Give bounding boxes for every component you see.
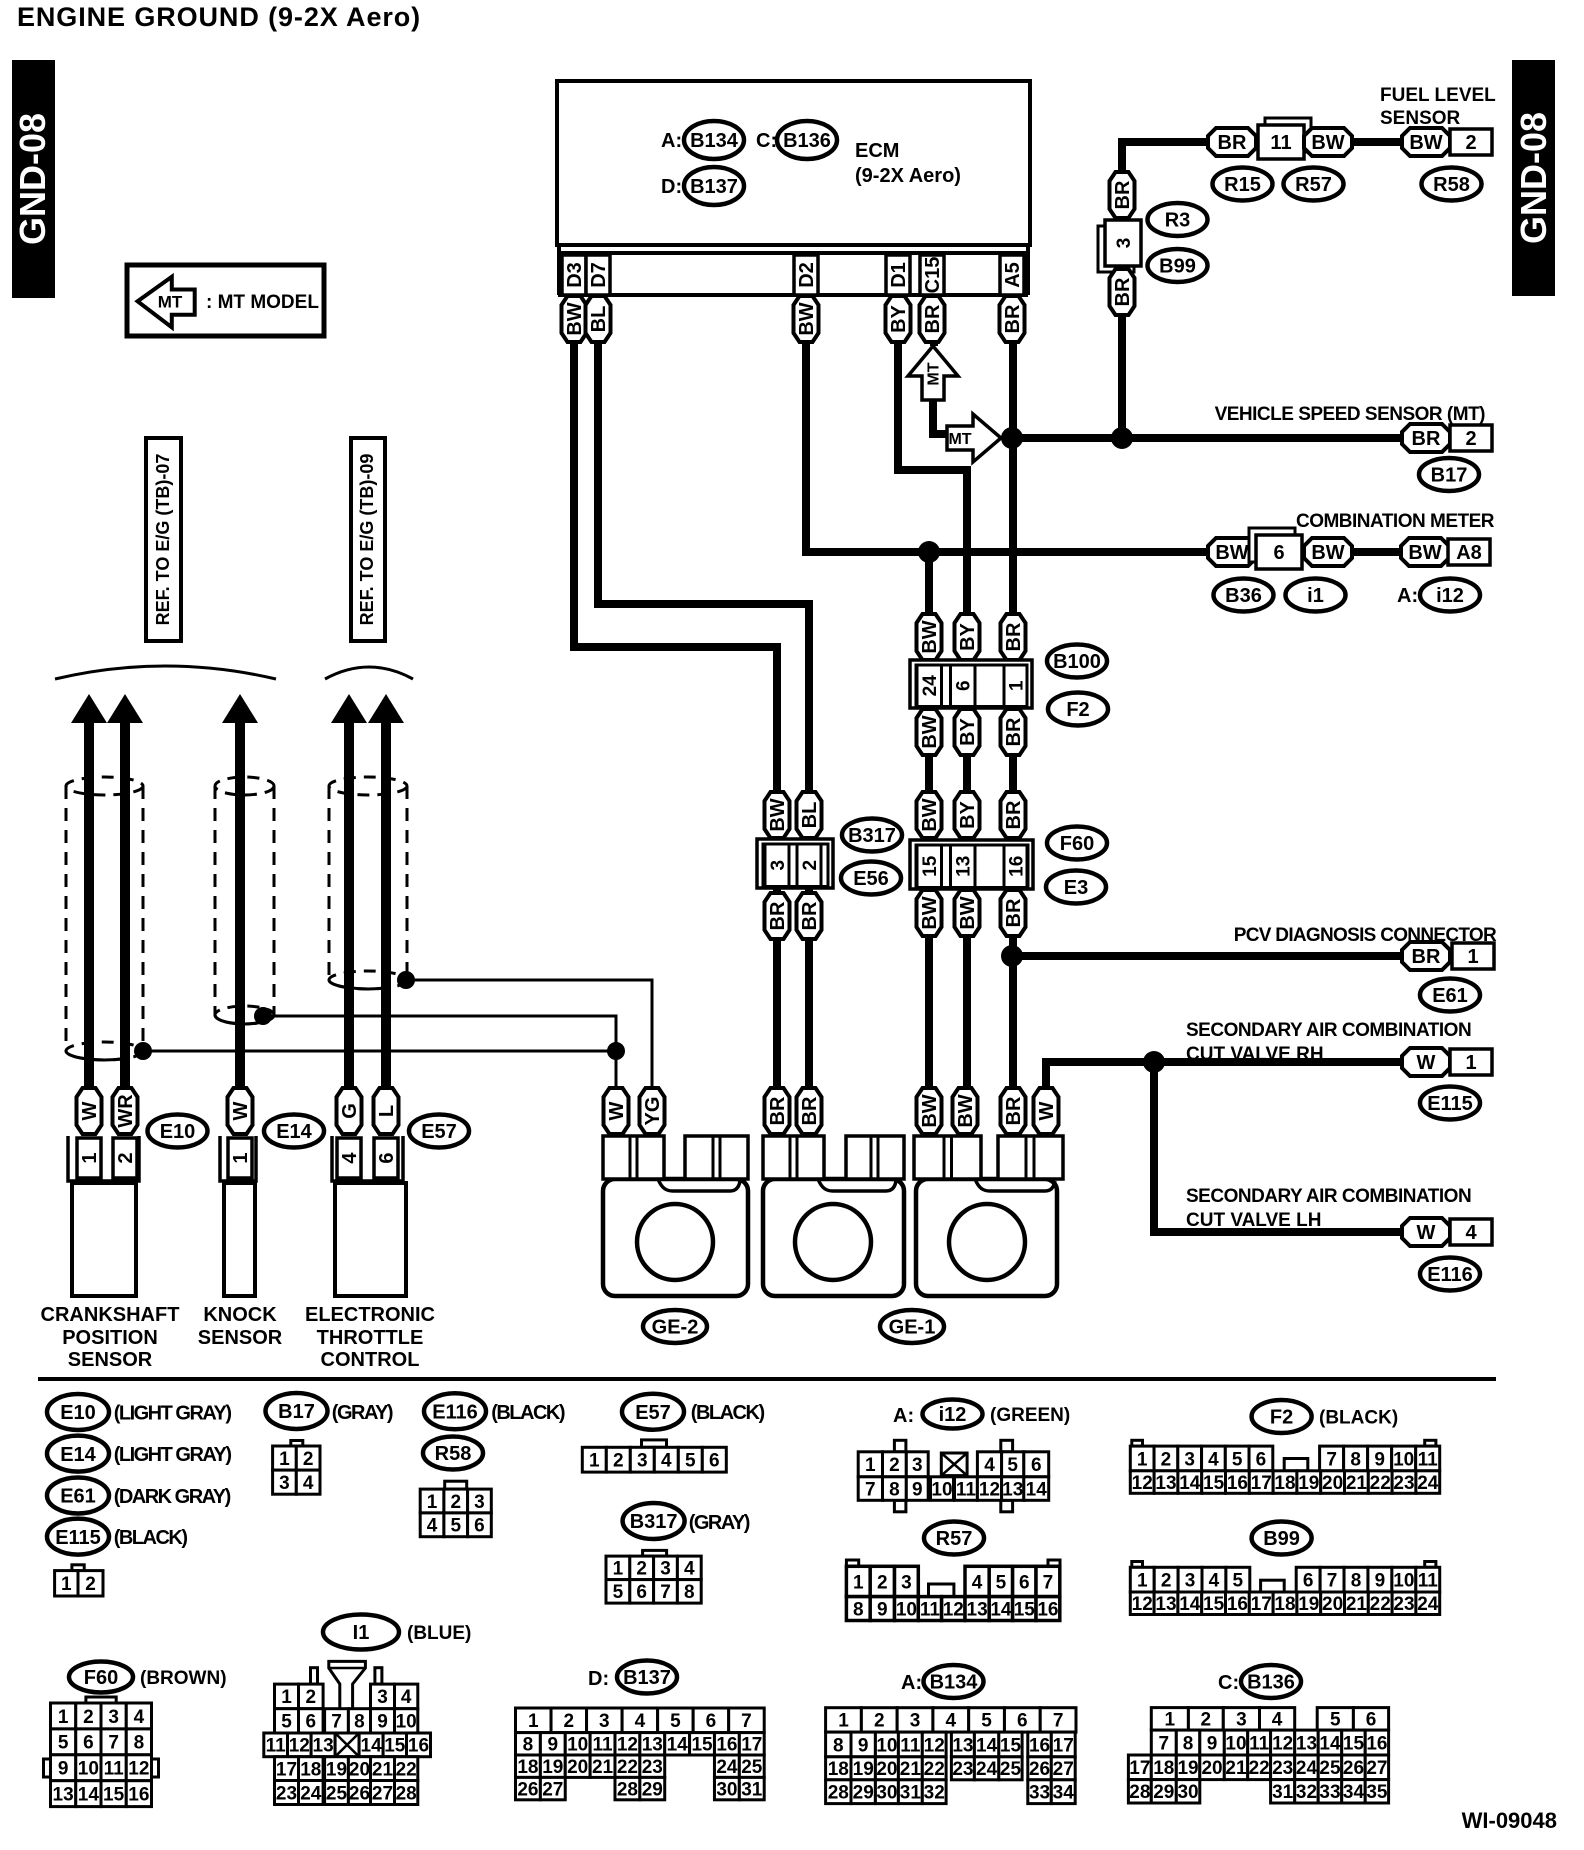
svg-text:15: 15 (920, 855, 941, 877)
svg-text:14: 14 (976, 1735, 998, 1756)
svg-text:5: 5 (670, 1711, 681, 1732)
svg-text:9: 9 (548, 1735, 559, 1756)
E57 pin 4 (337, 1138, 361, 1178)
svg-text:BW: BW (919, 896, 941, 929)
svg-text:GND-08: GND-08 (1513, 112, 1554, 244)
pin box 11 of R15/R57 (1258, 118, 1311, 159)
label E10 color (114, 1403, 232, 1425)
ECM connector oval D B137 (684, 167, 744, 205)
svg-text:9: 9 (1374, 1449, 1385, 1470)
svg-text:9: 9 (858, 1735, 869, 1756)
svg-text:11: 11 (592, 1735, 613, 1756)
svg-text:BW: BW (564, 302, 586, 335)
connector F60/E3 box (910, 840, 1033, 889)
knock sensor body (224, 1183, 255, 1296)
svg-text:18: 18 (1153, 1758, 1174, 1779)
svg-text:19: 19 (326, 1759, 347, 1780)
svg-text:BY: BY (888, 304, 910, 332)
svg-text:BR: BR (1112, 180, 1134, 209)
svg-text:19: 19 (1298, 1594, 1319, 1615)
svg-text:25: 25 (1000, 1759, 1022, 1780)
svg-text:2: 2 (613, 1451, 624, 1472)
svg-text:E115: E115 (1427, 1093, 1473, 1115)
svg-text:12: 12 (924, 1735, 945, 1756)
svg-text:2: 2 (1201, 1710, 1212, 1731)
connector view B17 grid (273, 1441, 320, 1495)
connector view I12 grid (858, 1440, 1048, 1512)
svg-text:BW: BW (1409, 132, 1442, 154)
svg-text:BY: BY (957, 622, 979, 650)
svg-text:23: 23 (276, 1783, 297, 1804)
svg-text:6: 6 (636, 1582, 647, 1603)
svg-text:23: 23 (1393, 1473, 1414, 1494)
svg-text:14: 14 (667, 1735, 689, 1756)
svg-text:VEHICLE SPEED SENSOR (MT): VEHICLE SPEED SENSOR (MT) (1215, 404, 1486, 425)
svg-text:R3: R3 (1165, 210, 1191, 232)
svg-text:17: 17 (1251, 1594, 1272, 1615)
svg-text:2: 2 (306, 1687, 317, 1708)
svg-text:BR: BR (1003, 898, 1025, 927)
crankshaft position sensor body (72, 1183, 136, 1296)
svg-text:3: 3 (901, 1572, 912, 1593)
svg-text:BW: BW (919, 620, 941, 653)
svg-text:C15: C15 (922, 257, 944, 294)
wire tag BW at GE-1 from F60 pin13 (953, 1088, 978, 1134)
svg-text:BW: BW (1408, 542, 1441, 564)
oval E10 bottom (47, 1394, 109, 1430)
oval B36 (1214, 579, 1274, 612)
svg-text:7: 7 (1327, 1570, 1338, 1591)
wire tag BR above F60 pin16 (1001, 792, 1026, 838)
svg-text:5: 5 (996, 1572, 1007, 1593)
wire tag BW at ECM D2 (794, 296, 819, 342)
connector view E57 grid (582, 1440, 726, 1472)
pin box 4 at cut valve LH (1450, 1219, 1492, 1245)
oval E56 inline (841, 862, 901, 895)
svg-text:E61: E61 (60, 1486, 96, 1508)
oval F60 inline (1047, 827, 1107, 860)
svg-text:32: 32 (1296, 1782, 1317, 1803)
E57 pin 6 (374, 1138, 398, 1178)
svg-text:4: 4 (1272, 1710, 1283, 1731)
svg-text:31: 31 (900, 1783, 922, 1804)
svg-text:6: 6 (1273, 542, 1284, 564)
svg-text:11: 11 (956, 1479, 977, 1500)
svg-text:17: 17 (1053, 1735, 1074, 1756)
svg-text:(GREEN): (GREEN) (990, 1405, 1070, 1426)
wire tag BR at GE-1 from B317 pin3 (765, 1088, 790, 1134)
svg-text:10: 10 (931, 1479, 952, 1500)
svg-text:i12: i12 (939, 1404, 967, 1426)
svg-text:19: 19 (1177, 1758, 1198, 1779)
svg-text:4: 4 (946, 1711, 957, 1732)
svg-text:1: 1 (61, 1574, 72, 1595)
junction dot combination meter / B100 column (918, 541, 940, 563)
oval E57 label (409, 1115, 469, 1148)
svg-text:22: 22 (924, 1759, 945, 1780)
svg-text:D2: D2 (796, 262, 818, 288)
svg-text:12: 12 (289, 1736, 310, 1757)
svg-text:10: 10 (396, 1712, 417, 1733)
ECM pin D7 (586, 255, 610, 295)
svg-text:6: 6 (1366, 1710, 1377, 1731)
svg-text:1: 1 (1467, 946, 1478, 968)
svg-text:20: 20 (1322, 1473, 1343, 1494)
svg-text:1: 1 (838, 1711, 849, 1732)
wire tag BW at GE-1 from F60 pin15 (917, 1088, 942, 1134)
wire tag BR at GE-1 from PCV line (1001, 1088, 1026, 1134)
svg-text:6: 6 (1256, 1449, 1267, 1470)
label B317 color (689, 1512, 750, 1534)
svg-text:BL: BL (588, 306, 610, 333)
svg-text:5: 5 (1007, 1455, 1018, 1476)
MT up arrow on C15 wire (908, 346, 958, 400)
svg-text:D3: D3 (564, 262, 586, 288)
junction dot crankshaft shield drain (134, 1042, 152, 1060)
svg-text:24: 24 (300, 1783, 322, 1804)
svg-text:3: 3 (108, 1707, 119, 1728)
svg-text:(9-2X Aero): (9-2X Aero) (855, 165, 961, 187)
wire tag G at E57 pin4 (337, 1088, 362, 1134)
svg-text:4: 4 (1208, 1449, 1219, 1470)
svg-text:9: 9 (377, 1712, 388, 1733)
wire tag BW inline combination meter right (1304, 538, 1352, 566)
oval GE-2 label (643, 1310, 707, 1343)
svg-text:31: 31 (1272, 1782, 1294, 1803)
svg-text:1: 1 (230, 1152, 252, 1163)
svg-text:1: 1 (1006, 680, 1027, 691)
svg-text:15: 15 (1203, 1473, 1225, 1494)
crankshaft sensor wire W (71, 694, 107, 1090)
oval E57 bottom (622, 1394, 684, 1430)
svg-text:C:: C: (756, 130, 777, 152)
section divider line (38, 1377, 1496, 1381)
svg-text:REF. TO E/G (TB)-07: REF. TO E/G (TB)-07 (153, 454, 173, 626)
svg-text:34: 34 (1053, 1783, 1075, 1804)
svg-text:CUT VALVE LH: CUT VALVE LH (1186, 1210, 1321, 1231)
svg-text:: MT MODEL: : MT MODEL (206, 292, 319, 313)
ECM connector oval C B136 (777, 121, 837, 159)
svg-text:5: 5 (685, 1451, 696, 1472)
svg-text:12: 12 (1132, 1473, 1153, 1494)
svg-text:E14: E14 (276, 1121, 312, 1143)
oval R58 bottom (423, 1437, 483, 1470)
svg-text:1: 1 (279, 1449, 290, 1470)
svg-text:BR: BR (922, 304, 944, 333)
ground GE-1 right body (914, 1136, 1063, 1296)
MT right arrow to vehicle speed junction (947, 414, 1001, 462)
svg-text:2: 2 (1465, 428, 1476, 450)
svg-text:R58: R58 (435, 1443, 472, 1465)
svg-text:13: 13 (967, 1599, 988, 1620)
svg-text:20: 20 (876, 1759, 897, 1780)
MT model legend box (127, 265, 324, 336)
drawing number WI-09048 (1462, 1808, 1557, 1833)
svg-text:2: 2 (1161, 1449, 1172, 1470)
svg-text:4: 4 (134, 1707, 145, 1728)
svg-text:B99: B99 (1263, 1528, 1300, 1550)
oval E61 bottom (47, 1478, 109, 1514)
svg-text:2: 2 (1161, 1570, 1172, 1591)
junction dot drains join W wire (607, 1042, 625, 1060)
svg-text:15: 15 (1014, 1599, 1036, 1620)
wire tag BW inline combination meter (1208, 538, 1256, 566)
oval E116 bottom (424, 1393, 486, 1429)
label A: for B134 (901, 1672, 922, 1694)
svg-text:17: 17 (741, 1735, 762, 1756)
svg-text:7: 7 (1053, 1711, 1064, 1732)
svg-text:22: 22 (1370, 1594, 1391, 1615)
label ELECTRONIC THROTTLE CONTROL (305, 1304, 435, 1371)
svg-text:22: 22 (617, 1757, 638, 1778)
connector view B137 grid (516, 1708, 765, 1800)
oval F2 bottom (1252, 1400, 1312, 1433)
svg-text:B17: B17 (1431, 465, 1468, 487)
svg-text:D:: D: (588, 1668, 609, 1690)
wire D7 BL from ECM to B317 pin2 column (598, 296, 809, 1178)
svg-text:32: 32 (924, 1783, 945, 1804)
svg-text:BW: BW (919, 715, 941, 748)
wire D1 BY from ECM to B100 pin6 column (898, 296, 967, 1178)
wire tag BR at vehicle speed sensor (1402, 424, 1450, 452)
label KNOCK SENSOR (198, 1304, 283, 1349)
svg-text:8: 8 (1183, 1733, 1194, 1754)
svg-text:R57: R57 (1295, 174, 1332, 196)
svg-text:15: 15 (691, 1735, 713, 1756)
ECM connector oval A B134 (684, 121, 744, 159)
svg-text:24: 24 (1417, 1594, 1439, 1615)
wire tag BY above B100 pin6 (955, 614, 980, 660)
svg-text:BW: BW (957, 896, 979, 929)
dashed shield around crankshaft sensor wires (66, 777, 143, 1060)
svg-text:E61: E61 (1432, 985, 1468, 1007)
arc over crankshaft wires (55, 666, 276, 679)
svg-text:27: 27 (1053, 1759, 1074, 1780)
label C: for B136 (1218, 1672, 1239, 1694)
svg-text:13: 13 (313, 1736, 334, 1757)
wire tag W at cut valve LH (1402, 1218, 1450, 1246)
ground GE-1 middle body (763, 1136, 904, 1296)
svg-text:2: 2 (889, 1455, 900, 1476)
svg-text:1: 1 (1137, 1449, 1148, 1470)
svg-text:5: 5 (1330, 1710, 1341, 1731)
svg-text:BR: BR (1412, 428, 1441, 450)
pin box A8 at combination meter (1448, 539, 1490, 565)
E14 connector tray (220, 1136, 256, 1181)
svg-text:1: 1 (58, 1707, 69, 1728)
svg-text:7: 7 (1159, 1733, 1170, 1754)
svg-text:BW: BW (1311, 542, 1344, 564)
label I1 color (407, 1623, 471, 1644)
svg-text:25: 25 (1319, 1758, 1341, 1779)
svg-text:BW: BW (919, 1094, 941, 1127)
svg-text:3: 3 (1185, 1570, 1196, 1591)
oval B317 bottom (623, 1503, 685, 1539)
svg-text:REF. TO E/G (TB)-09: REF. TO E/G (TB)-09 (357, 454, 377, 626)
oval I1 bottom (323, 1615, 399, 1650)
svg-text:11: 11 (920, 1599, 941, 1620)
svg-text:WR: WR (115, 1094, 137, 1128)
svg-text:6: 6 (376, 1152, 398, 1163)
svg-text:15: 15 (103, 1784, 125, 1805)
svg-text:GE-1: GE-1 (889, 1317, 936, 1339)
svg-text:5: 5 (450, 1516, 461, 1537)
svg-text:12: 12 (617, 1735, 638, 1756)
wire tag L at E57 pin6 (374, 1088, 399, 1134)
svg-text:(BROWN): (BROWN) (140, 1668, 227, 1689)
svg-text:A:: A: (893, 1405, 914, 1427)
svg-text:8: 8 (134, 1733, 145, 1754)
svg-text:B137: B137 (623, 1667, 671, 1689)
svg-text:W: W (606, 1101, 628, 1120)
svg-text:5: 5 (1232, 1449, 1243, 1470)
svg-text:D7: D7 (588, 262, 610, 288)
svg-text:21: 21 (1225, 1758, 1247, 1779)
svg-text:3: 3 (377, 1687, 388, 1708)
svg-text:15: 15 (1203, 1594, 1225, 1615)
svg-text:R58: R58 (1433, 174, 1470, 196)
svg-text:BR: BR (799, 1096, 821, 1125)
wire tag BR at ECM A5 (1000, 296, 1025, 342)
svg-text:9: 9 (1375, 1570, 1386, 1591)
svg-text:8: 8 (1351, 1570, 1362, 1591)
wire tag BW at ECM D3 (562, 296, 587, 342)
svg-text:11: 11 (266, 1736, 287, 1757)
svg-text:5: 5 (281, 1712, 292, 1733)
svg-text:16: 16 (128, 1784, 149, 1805)
wire tag WR at E10 pin2 (113, 1088, 138, 1134)
svg-text:12: 12 (1272, 1733, 1293, 1754)
junction dot MT arrow / vehicle speed on A5 wire (1001, 427, 1023, 449)
wire tag BR below B317 pin3 (765, 893, 790, 939)
svg-text:6: 6 (1019, 1572, 1030, 1593)
svg-text:4: 4 (401, 1687, 412, 1708)
svg-text:BR: BR (1003, 622, 1025, 651)
wire tag YG at GE-2 (640, 1088, 665, 1134)
label A: for i12 (1397, 585, 1418, 607)
wire tag BY below B100 pin6 (955, 709, 980, 755)
svg-text:26: 26 (517, 1779, 538, 1800)
E57 connector tray (332, 1136, 403, 1181)
svg-text:(LIGHT GRAY): (LIGHT GRAY) (114, 1444, 232, 1466)
svg-text:26: 26 (1029, 1759, 1050, 1780)
wire tag BW below F60 pin15 (917, 890, 942, 936)
svg-text:28: 28 (828, 1783, 849, 1804)
svg-text:WI-09048: WI-09048 (1462, 1808, 1557, 1833)
svg-text:W: W (79, 1101, 101, 1120)
svg-text:3: 3 (912, 1455, 923, 1476)
svg-text:6: 6 (1017, 1711, 1028, 1732)
svg-text:B36: B36 (1225, 585, 1262, 607)
svg-text:4: 4 (635, 1711, 646, 1732)
oval E14 label (264, 1115, 324, 1148)
svg-text:16: 16 (1029, 1735, 1050, 1756)
svg-text:10: 10 (567, 1735, 588, 1756)
svg-text:6: 6 (1031, 1455, 1042, 1476)
wire A5 BR from ECM down B100 pin1 column (1009, 296, 1017, 1178)
svg-text:14: 14 (361, 1736, 383, 1757)
label E57 color (691, 1402, 765, 1424)
svg-text:3: 3 (660, 1559, 671, 1580)
svg-text:34: 34 (1343, 1782, 1365, 1803)
svg-text:29: 29 (853, 1783, 874, 1804)
crankshaft sensor wire WR (107, 694, 143, 1090)
svg-text:28: 28 (617, 1779, 638, 1800)
connector view R58 grid (420, 1481, 491, 1537)
arc over ETC wires (325, 667, 413, 679)
svg-text:E56: E56 (853, 868, 889, 890)
svg-text:3: 3 (474, 1492, 485, 1513)
svg-text:23: 23 (642, 1757, 663, 1778)
thin wire crankshaft shield drain (143, 1050, 616, 1053)
title text ENGINE GROUND (9-2X Aero) (17, 2, 421, 32)
svg-text:18: 18 (300, 1759, 321, 1780)
svg-text:B134: B134 (690, 130, 739, 152)
svg-text:BR: BR (1003, 1096, 1025, 1125)
oval B17 at vehicle speed sensor (1419, 458, 1479, 491)
svg-text:16: 16 (716, 1735, 737, 1756)
label CRANKSHAFT POSITION SENSOR (41, 1304, 180, 1371)
svg-text:8: 8 (684, 1582, 695, 1603)
svg-text:21: 21 (900, 1759, 922, 1780)
svg-text:8: 8 (523, 1735, 534, 1756)
wire tag BR below B100 pin1 (1001, 709, 1026, 755)
oval GE-1 label (880, 1310, 944, 1343)
svg-text:3: 3 (599, 1711, 610, 1732)
svg-text:27: 27 (372, 1783, 393, 1804)
pin box 2 at vehicle speed sensor (1450, 425, 1492, 451)
svg-text:31: 31 (741, 1779, 763, 1800)
label FUEL LEVEL SENSOR (1380, 85, 1496, 129)
label COMBINATION METER (1296, 511, 1495, 532)
svg-text:2: 2 (303, 1449, 314, 1470)
ECM pin D3 (562, 255, 586, 295)
svg-text:17: 17 (1251, 1473, 1272, 1494)
svg-text:23: 23 (1393, 1594, 1414, 1615)
connector view F2 grid (1130, 1440, 1439, 1494)
svg-text:8: 8 (833, 1735, 844, 1756)
svg-text:POSITION: POSITION (62, 1327, 158, 1349)
svg-text:2: 2 (83, 1707, 94, 1728)
oval R57 inline (1284, 168, 1344, 201)
svg-text:E57: E57 (635, 1402, 671, 1424)
svg-text:18: 18 (1274, 1594, 1295, 1615)
svg-text:3: 3 (279, 1473, 290, 1494)
svg-text:1: 1 (427, 1492, 438, 1513)
svg-text:16: 16 (1227, 1473, 1248, 1494)
svg-text:1: 1 (865, 1455, 876, 1476)
oval E14 bottom (47, 1436, 109, 1472)
svg-text:27: 27 (1366, 1758, 1387, 1779)
svg-text:30: 30 (876, 1783, 897, 1804)
svg-text:15: 15 (1000, 1735, 1022, 1756)
svg-text:21: 21 (372, 1759, 394, 1780)
oval R3 (1148, 203, 1208, 236)
svg-text:2: 2 (877, 1572, 888, 1593)
pin box 1 at cut valve RH (1450, 1049, 1492, 1075)
oval B17 bottom (266, 1393, 328, 1429)
svg-text:25: 25 (741, 1757, 763, 1778)
svg-text:BW: BW (796, 302, 818, 335)
svg-text:22: 22 (396, 1759, 417, 1780)
svg-text:SECONDARY AIR COMBINATION: SECONDARY AIR COMBINATION (1186, 1186, 1471, 1207)
wire tag BW below F60 pin13 (955, 890, 980, 936)
svg-text:22: 22 (1249, 1758, 1270, 1779)
svg-text:17: 17 (1129, 1758, 1150, 1779)
svg-text:20: 20 (349, 1759, 370, 1780)
wire tag BW inline fuel level (1304, 128, 1352, 156)
wire tag BW above B100 pin24 (917, 614, 942, 660)
